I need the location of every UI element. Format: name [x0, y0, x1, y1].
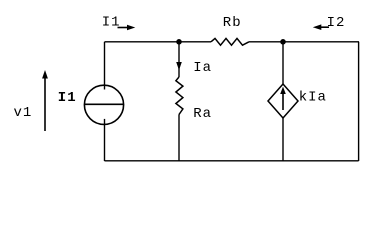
arrow v1 (voltage annotation): [42, 70, 48, 131]
wire bottom rail: [105, 160, 359, 162]
arrow I2 current direction: [313, 24, 329, 30]
svg-text:v1: v1: [14, 105, 33, 121]
arrow inside kIa source: [280, 87, 286, 110]
arrow I1 current direction: [118, 25, 136, 31]
resistor Rb: [211, 38, 249, 45]
wire right edge: [358, 42, 360, 161]
svg-text:kIa: kIa: [299, 90, 327, 106]
svg-text:I2: I2: [327, 15, 346, 31]
svg-text:Rb: Rb: [223, 15, 242, 31]
arrow Ia current direction: [176, 62, 182, 70]
wire middle branch lower: [178, 115, 180, 162]
wire left branch upper: [104, 42, 106, 90]
wire right branch lower: [282, 118, 284, 161]
current source I1: [84, 85, 123, 124]
node junction at kIa branch: [280, 39, 286, 45]
resistor Ra: [176, 77, 183, 115]
svg-text:Ra: Ra: [193, 106, 212, 122]
svg-text:I1: I1: [58, 90, 77, 106]
wire top rail right segment: [249, 41, 359, 43]
wire top rail left segment: [105, 41, 212, 43]
wire right branch upper: [282, 42, 284, 84]
svg-text:Ia: Ia: [193, 60, 212, 76]
wire left branch lower: [104, 119, 106, 161]
dependent current source kIa (diamond): [268, 84, 298, 118]
wire middle branch upper: [178, 42, 180, 77]
node junction at Ra branch: [176, 39, 182, 45]
